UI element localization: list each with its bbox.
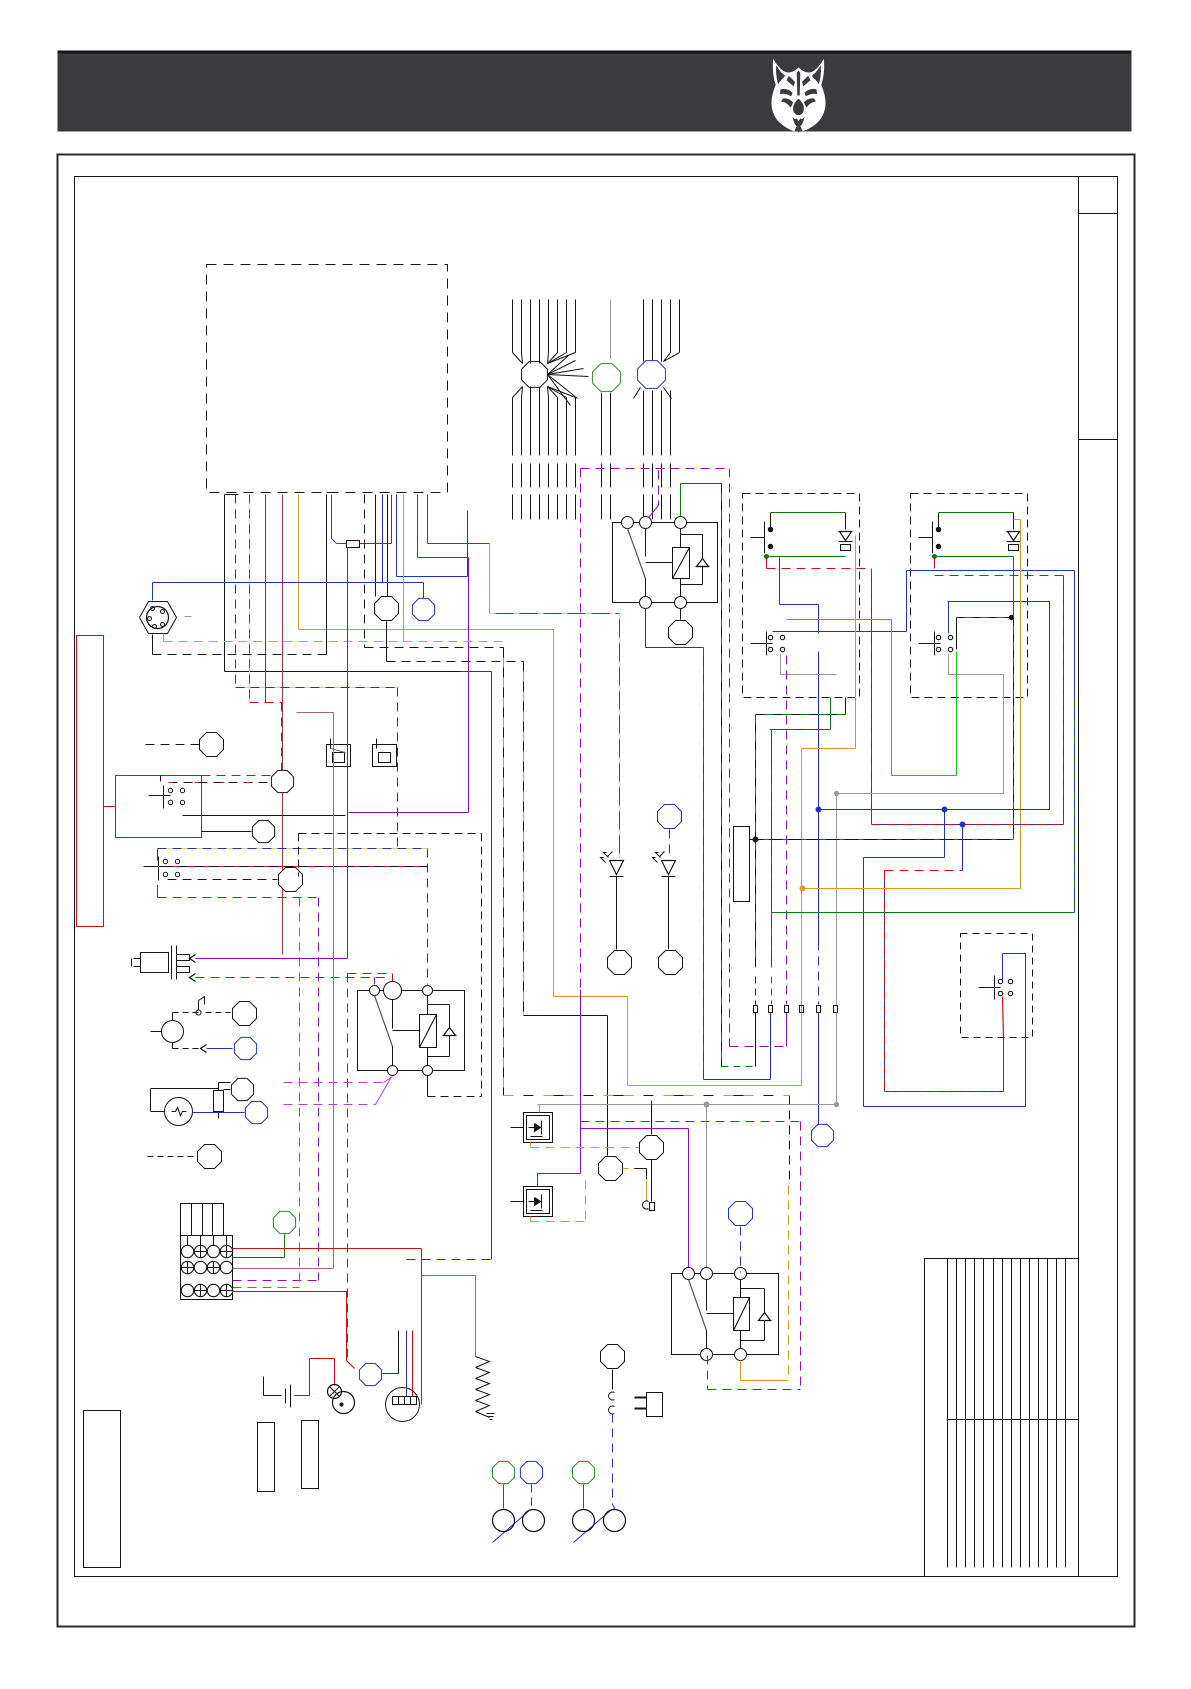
wire blue SW1 lower [773,631,907,633]
bundle 1 octagon connector [522,362,548,388]
feed box red (battery bus) [77,636,104,927]
small rect 2 [302,1421,319,1489]
relay K2 contact arm [375,996,393,1047]
switch cluster box SW2 switch S-top [919,537,933,539]
connector halves [609,1392,615,1400]
wire orange dashed from hex [163,634,165,642]
bundle 2 gray lead [610,300,612,359]
wire red ECU-4 [265,495,267,703]
wire blue vertical x818 mid [818,652,820,810]
wire orange ECU x403 [403,495,405,642]
wire orange SW2 diode [1020,520,1022,889]
bundle 3 wires top [644,300,680,362]
relay K1 box [613,523,718,603]
wire orange dashed vertical x788 [788,1186,790,1381]
wire red SW2 run [935,575,1064,577]
relay K1 pin 2 [640,517,652,529]
wire orange flasher F1 [530,1143,532,1148]
wire red y1291 [233,1291,347,1293]
wire red fuse feed [233,1248,422,1250]
switch cluster box SW1 switch S-top [751,537,765,539]
octagon connector L2 [271,770,293,792]
wire green fuse [284,1235,286,1258]
wire purple dashed second [299,898,301,1288]
octagon connector BT1 [601,1345,625,1369]
bundle 3 wires bottom [634,388,672,520]
wire red SW1 run [767,568,872,570]
wire green-black vertical x721 [721,484,723,1067]
hex connector P1 [140,602,177,634]
bundle 1 wires bottom [513,387,576,520]
wire red-yellow to LED1 [619,614,621,859]
wire orange vertical x553 [553,630,555,997]
wire red SW2 drop [934,558,936,569]
outer frame [58,155,1135,1627]
octagon connector LED2 [659,951,683,975]
wire blue SW1 v [779,558,781,605]
wire purple ECU-13 [417,495,419,558]
wire purple dashed vertical x580 [580,469,582,1122]
connector strip CN [734,827,750,902]
relay K2 pin 3 [423,986,433,996]
wire blue SW2 h [948,601,1050,603]
ignition coil winding [476,1357,490,1412]
bundle 3 blue octagon connector [638,361,666,389]
wire red SW1 drop [766,558,768,569]
wire blue jog x944 [944,810,946,858]
inner frame [75,177,1118,1577]
wire orange vertical x855 [855,536,857,749]
wire purple dashed vertical x729 [729,469,731,1047]
switch cluster box SW2 [911,494,1028,698]
wire blue dashed y1259 [407,1259,492,1261]
wire black dashed y714 [756,714,846,716]
wire maroon vertical x333 [297,712,334,714]
wire green dashed y1066 [722,1066,756,1068]
plug housing [647,1393,663,1417]
wire blue G2 diagonal [531,1485,533,1509]
wire blue dashed plug [612,1414,614,1506]
wire red dashed vertical x347 [347,974,349,1359]
wire black dashed y647 [365,647,504,649]
wire black y839 [750,839,1014,841]
relay K1 pin 1 [622,517,634,529]
wire red-yellow y613 [490,613,620,615]
wire black y1015 [524,1015,608,1017]
wire purple dashed from SW1 pin [786,656,788,1005]
wire purple dashed y897 [158,897,319,899]
relay K2 pin 2 [384,982,402,1000]
octagon connector A [375,597,399,621]
wire red battery positive [295,1395,310,1397]
wire orange-black vertical x523 [523,662,525,1016]
switch S3 (4 pin) [144,866,166,868]
legend box [925,1259,1079,1577]
wire black dashed ECU-9 [364,495,366,648]
wire black ECU-1 [225,494,239,496]
wire blue SW1 to pin [818,605,820,634]
arrow connector 2 [190,974,196,982]
relay K3 pin 1 [683,1268,695,1280]
wire blue pin to octagon [818,942,820,1005]
wire orange ECU-6 [298,495,300,630]
relay K1 contact arm [628,529,646,579]
wire blue ECU-12 [396,495,398,577]
wire blue dashed to relay K2 [427,849,429,985]
wire blue dashed S3 [157,849,159,861]
wire orange y748 [802,748,856,750]
wire gray vertical x1003 [1003,675,1005,794]
relay K2 coil [420,1015,437,1048]
wire orange y1085 [628,1085,802,1087]
wire dark red ECU-5 [282,495,284,955]
flasher unit F2 [524,1187,553,1217]
wire black-green vertical x755 [755,715,757,968]
wire purple vertical x468 [468,558,470,813]
wire to octagon L4 [168,879,278,881]
wire black from K2 pin5 [427,1076,429,1097]
wire black y815 from S2 [183,815,346,817]
wire red solenoid [347,1361,355,1369]
wire magenta dashed from K2 pin4 [384,1077,393,1083]
header bar [58,51,1132,132]
relay K3 pin 5 [735,1349,747,1361]
component box small B [373,745,397,767]
octagon connector M2 [599,1157,623,1181]
wire green K1 pin3 [680,484,682,517]
relay K3 pin 4 [701,1349,713,1361]
wire black dashed y654 to hex [153,654,327,656]
pin row connectors [754,1006,758,1013]
wire purple dashed to fusebox [233,1280,319,1282]
blue octagon above LED2 [658,805,682,829]
wire blue SW1 h [780,604,819,606]
resistor [214,1091,224,1112]
wire blue dashed y848 [158,848,428,850]
bundle 1 fan lines [513,353,589,406]
blue octagon connector mid [811,1124,833,1146]
legend tall box bottom left [84,1411,121,1568]
component box small A [327,745,351,767]
wire blue from K1 pin4 [645,609,647,648]
wire blue vertical x818 upper [818,810,820,942]
wire blue y1106 [864,1106,1026,1108]
LED indicator 1 [610,861,624,875]
pressure switch [141,953,169,973]
wolf logo [772,59,826,133]
green octagon G3 [572,1461,594,1483]
wire gray pin column [836,794,838,1005]
wire blue-green vertical x703 [703,648,705,1080]
wire gray y1104 [538,1104,837,1106]
small connector pair mid [623,1168,635,1170]
wire lime SW1 run [787,619,892,621]
wire black ECU-7 to hex [327,492,334,494]
octagon connector below K1 [680,609,682,620]
wire blue ignition [151,1031,162,1033]
octagon connector H1 [231,1078,253,1100]
legend hatch lines [948,1259,1066,1568]
key symbol [198,1001,200,1011]
ring terminal circles [493,1510,515,1532]
wire purple dashed y977 [196,977,387,979]
wire red dashed ECU-3 [249,495,251,703]
wire gray to flasher F1 [539,1105,541,1113]
wire purple ECU-8 loop [331,495,333,539]
octagon connector B blue [412,598,434,620]
wire blue vertical x1025 [1025,954,1027,1107]
wire red dashed to K2 [348,973,393,975]
wire blue-green vertical x1074 [1074,571,1076,913]
wire blue vertical x491 [491,672,493,1260]
green octagon connector F1 [273,1211,295,1233]
relay K1 pin 3 [675,517,687,529]
wire black to octagon x607 [607,1016,609,1156]
bundle 2 wires bottom [602,393,611,520]
wire blue y582 to hex [153,582,424,584]
wire maroon to coil [422,1275,476,1277]
wire black long y671 [225,671,461,673]
octagon connector IG2 blue [234,1037,256,1059]
switch cluster box SW2 top wire green [938,513,940,523]
starter motor [386,1388,420,1422]
octagon connector L3 [252,820,274,842]
wire purple vertical x347 [347,548,349,959]
arrow connector 1 [190,955,196,963]
switch S2 inside red box [149,795,171,797]
wire purple vertical x580 [580,990,582,1174]
switch cluster box SW1 switch S-bottom (4 pin) [751,643,773,645]
wire blue y809 [819,809,1050,811]
wire orange-black vertical x503 [503,648,505,1096]
green octagon G1 [492,1461,514,1483]
wire blue riser x906 [906,571,908,632]
wire blue-green vertical x771 [771,730,773,968]
LED indicator 2 [662,861,676,875]
wire orange riser x489 [489,544,491,614]
wire green dot SW2 [933,555,937,559]
octagon connector H3 [148,1156,197,1158]
relay K1 diode [696,566,710,568]
wire black dashed y661 [386,622,388,662]
relay K3 contact arm [689,1280,707,1331]
wire black ECU-10 pair to octagon [375,495,377,597]
wire purple dashed S3 bottom [157,885,159,898]
wire orange y629 [299,629,554,631]
wire green G3 [583,1485,585,1509]
wire green vertical x1013 [1013,557,1015,840]
wire gray to relay K3 [706,1105,708,1273]
black dashed enclosure [299,833,482,835]
ignition switch [162,1021,184,1043]
wire purple dashed corridor [730,1046,787,1048]
wire orange flasher F2 [530,1217,532,1222]
wire black dashed vertical x789 [789,1096,791,1186]
relay K3 box [672,1274,779,1355]
wire green G1 [503,1485,505,1509]
switch cluster box SW2 switch S-bottom (4 pin) [919,643,941,645]
wire purple stub to K1 [658,471,660,506]
blue octagon starter [359,1363,381,1385]
ground symbol battery [263,1377,265,1396]
wire red-black dashed y866 [165,866,428,868]
relay K1 pin 4 [640,597,652,609]
wires from red box [169,782,272,784]
small rect 1 [258,1423,275,1492]
relay K3 coil [734,1298,750,1331]
bundle 1 wires top [513,300,576,353]
spark plug ground [476,1412,490,1418]
wire purple dashed vertical x318 [318,898,320,1281]
octagon connector M1 [640,1136,664,1160]
octagon connector LED1 [608,951,632,975]
horn [165,1098,193,1126]
switch box dashed right [961,934,1033,1038]
wire blue vertical x863 [863,858,865,1107]
wire blue vertical x1049 [1049,602,1051,810]
wire gray SW2 [948,654,950,675]
wire red-blue vertical x871 [871,569,873,825]
wire blue starter [406,1331,408,1397]
blue octagon G2 [520,1461,542,1483]
fuses [181,1245,193,1257]
wire black starter [398,1331,400,1374]
wire purple y812 [349,812,469,814]
inline resistor on purple wire [347,541,360,548]
wire red dashed y824 [872,824,1064,826]
relay K3 pin 3 [735,1268,747,1280]
relay K2 box [358,991,465,1071]
relay K2 diode [443,1035,457,1037]
wire blue ECU-11 to hex [382,495,384,583]
wire gray SW1 [780,654,782,675]
bundle 2 green octagon connector [593,364,621,392]
wire green SW2 [935,556,1014,558]
wire blue SW2 v [948,602,950,634]
wire red vertical x421 [421,1249,423,1405]
ECU dashed box [207,265,448,493]
fuse box [181,1204,224,1236]
title strip right column [1078,177,1080,1577]
wire orange y888 [803,888,1021,890]
wire blue dashed ECU-2 [235,495,237,688]
control unit box red [116,776,202,838]
wire red-blue dashed x884 [962,825,964,871]
switch cluster box SW1 top wire green [770,513,772,523]
switch cluster box SW1 LED D [839,531,853,533]
blue octagon above K3 [729,1202,753,1226]
battery [285,1389,287,1404]
relay K1 pin 5 [675,597,687,609]
wire green y912 [772,912,1075,914]
wire green-black SW2 pin link [956,618,958,650]
switch cluster box SW1 [743,494,860,698]
octagon connector L4 [279,868,303,892]
wire blue-green y729 [770,729,831,731]
relay K3 diode [758,1320,772,1322]
octagon connector H2 blue [245,1101,267,1123]
wire orange-black y1095 [504,1095,790,1097]
wire orange vertical x801 [801,749,803,1086]
wire purple dashed top run [581,468,730,470]
octagon connector IG1 [233,1002,257,1026]
wire red-blue vertical x1063 [1063,576,1065,825]
wire green dot SW1 [765,555,769,559]
wire red inside S4 box [1003,997,1004,1038]
octagon connector L1 [146,744,200,746]
wire gray y793 [836,793,1004,795]
wire blue diagonal pair2 [574,1510,612,1543]
wire red ECU-14 [427,495,429,544]
wire purple from pressure switch [196,958,348,960]
wire blue y1079 [704,1079,771,1081]
purple dashed box right [581,1121,801,1123]
relay K1 coil [673,548,690,579]
wire orange from K3 [740,1361,742,1381]
relay K3 pin 2 [701,1268,713,1280]
relay K2 pin 4 [388,1066,398,1076]
wire red fuse drop [346,1292,348,1361]
wire green SW1 [767,556,846,558]
flasher unit F1 [524,1113,553,1143]
relay K2 pin 1 [370,986,380,996]
wire blue horn [193,1112,245,1114]
switch cluster box SW2 LED D [1007,531,1021,533]
starter solenoid [328,1385,342,1399]
switch S4 (4 pin) [979,987,1001,989]
wire blue y570 [907,570,1075,572]
relay K2 pin 5 [423,1066,433,1076]
